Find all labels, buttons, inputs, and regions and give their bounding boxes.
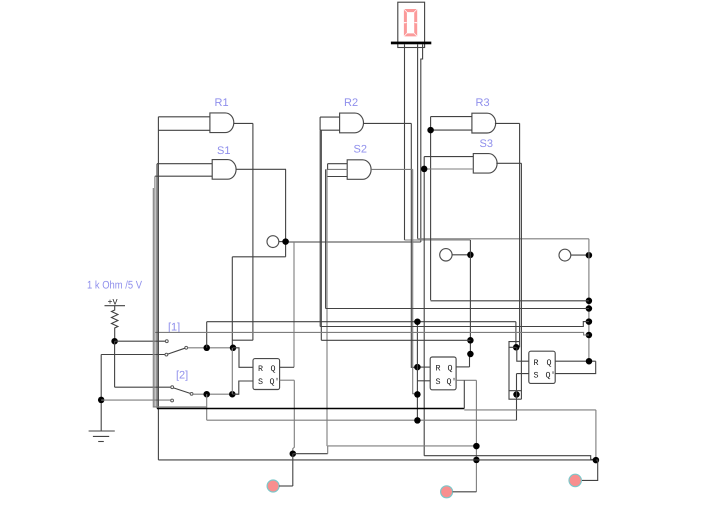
wire S3 input A bbox=[424, 156, 473, 158]
wire U3 R input drop bbox=[517, 347, 529, 361]
wire R2 inputs tie bbox=[319, 117, 321, 130]
SR latch U2 box bbox=[430, 357, 456, 390]
wire S2 bus long down bbox=[326, 169, 328, 446]
wire S2 output down bbox=[413, 169, 418, 394]
svg-text:R2: R2 bbox=[344, 97, 358, 109]
wire row410 gray bbox=[464, 409, 596, 411]
wire U top row bbox=[232, 256, 285, 258]
switch SW2 pole contact bbox=[190, 393, 193, 396]
svg-text:Q: Q bbox=[448, 364, 453, 374]
wire resistor net down bbox=[114, 341, 116, 387]
wire U2 R input bbox=[417, 366, 430, 368]
wire latch1 R jog bbox=[233, 348, 253, 368]
wire row circle1 net bbox=[286, 241, 421, 243]
switch SW1 pole contact bbox=[185, 346, 188, 349]
wire U2 Q' down bbox=[475, 380, 477, 492]
wire U3 Q out bbox=[555, 360, 596, 362]
node SW2 pole A bbox=[203, 391, 210, 398]
node U3 Q junction bbox=[586, 358, 593, 365]
wire ground to switch2 bottom throw bbox=[101, 399, 171, 401]
svg-text:R3: R3 bbox=[476, 97, 490, 109]
svg-text:Q: Q bbox=[547, 358, 552, 368]
SR latch U1 box bbox=[253, 359, 280, 390]
node U2 R bbox=[414, 364, 421, 371]
wire ground net riser bbox=[100, 355, 102, 432]
wire jog riser bbox=[327, 446, 329, 454]
wire row H5 with jog bbox=[155, 332, 589, 335]
node row460 jog bbox=[593, 457, 600, 464]
wire row H3 with jog bbox=[320, 322, 589, 327]
power +V symbol bbox=[105, 298, 126, 308]
wire U3 S loop bbox=[509, 391, 521, 400]
wire circle2 stub bbox=[452, 254, 471, 256]
wire U2 S input bbox=[417, 380, 430, 382]
svg-text:Q': Q' bbox=[546, 371, 556, 381]
wire row408 black bbox=[157, 408, 464, 410]
wire row to latch3 S bbox=[207, 419, 517, 421]
display digit 0 corner bevels bbox=[404, 9, 417, 36]
node circle1 junction bbox=[282, 238, 289, 245]
display digit 0 ring bbox=[404, 9, 417, 36]
node circle2 junction bbox=[467, 252, 474, 258]
svg-text:R: R bbox=[436, 364, 441, 374]
wire S3 input B bbox=[424, 168, 473, 170]
svg-text:[1]: [1] bbox=[168, 322, 180, 334]
wire S3 input tie down bbox=[423, 157, 425, 456]
AND gate S2 bbox=[347, 160, 371, 180]
wire U1 Q out bbox=[280, 366, 294, 368]
wire circle1 stub bbox=[279, 241, 286, 243]
wire S2 tie B bbox=[325, 169, 327, 308]
wire inter-loop vertical bbox=[508, 347, 510, 390]
node S3 inputs tie bbox=[421, 166, 428, 173]
wire red1 riser bbox=[292, 454, 294, 486]
AND gate R3 bbox=[472, 113, 496, 133]
wire resistor net to switch2 top throw bbox=[115, 386, 171, 388]
wire left bus line4 bbox=[153, 188, 207, 407]
ground symbol bbox=[89, 431, 115, 442]
wire S3 output down bbox=[520, 163, 522, 399]
wire display pin3 down with jog bbox=[421, 44, 423, 242]
svg-text:S: S bbox=[534, 371, 539, 381]
wire R2 output down bbox=[411, 123, 417, 367]
wire S1 output right bbox=[236, 168, 286, 170]
wire SW2 drop down bbox=[206, 394, 208, 420]
button red2 bbox=[441, 486, 453, 498]
wire row U1 to jog bbox=[293, 453, 328, 455]
wire R3 input A bbox=[431, 116, 472, 118]
wire display pin2 down bbox=[417, 44, 419, 239]
wire R2 input bus down bbox=[319, 130, 321, 326]
wire U1 Q' out bbox=[280, 379, 295, 381]
switch SW2 top throw contact bbox=[171, 386, 174, 389]
wire red1 stub bbox=[279, 485, 293, 487]
node circle3 row321 bbox=[586, 318, 593, 325]
wire row S2 net bbox=[326, 308, 589, 310]
indicator lamp circle2 bbox=[440, 249, 452, 261]
wire R1 input A bbox=[158, 116, 210, 118]
wire S1 input B bbox=[155, 175, 213, 177]
wire circle3 column bbox=[588, 239, 590, 361]
wire U3 S input bbox=[517, 374, 529, 421]
svg-text:S3: S3 bbox=[480, 138, 493, 150]
wire ground to switch1 bottom throw bbox=[101, 354, 165, 356]
switch SW1 top throw contact bbox=[165, 340, 168, 343]
wire R1 input B bbox=[158, 129, 210, 131]
wire left bus line2 bbox=[156, 164, 158, 409]
svg-text:S2: S2 bbox=[354, 144, 367, 156]
node U1 Q' bottom bbox=[290, 450, 297, 457]
node circle3 junction bbox=[586, 252, 593, 259]
switch SW1 blade bbox=[168, 348, 185, 354]
wire U2 Q out bbox=[456, 366, 469, 368]
wire R2 second bus down bbox=[320, 130, 322, 340]
wire S3 output right bbox=[496, 162, 521, 164]
svg-text:S: S bbox=[258, 377, 263, 387]
wire row pin1 to circle2 column bbox=[405, 239, 471, 241]
wire row R3 net bbox=[431, 300, 589, 302]
wire S1 input A bbox=[157, 163, 212, 165]
node U3 R junction bbox=[513, 344, 520, 351]
wire S2 output right bbox=[371, 168, 412, 170]
node SW2 pole B bbox=[229, 391, 236, 398]
svg-text:S1: S1 bbox=[217, 145, 230, 157]
svg-text:S: S bbox=[436, 377, 441, 387]
wire R2 input B bbox=[320, 129, 340, 131]
node SW1 pole A bbox=[203, 345, 210, 352]
node circle2 row340 bbox=[467, 337, 474, 344]
wire U2 Q up bbox=[469, 354, 471, 367]
AND gate R2 bbox=[340, 113, 364, 133]
wire circle2 column bbox=[469, 240, 471, 354]
wire S2 tie A bbox=[327, 164, 329, 170]
wire U3 Q' out bbox=[555, 361, 596, 373]
wire R3 output down bbox=[519, 123, 521, 347]
wire R1 output down bbox=[252, 123, 254, 340]
wire S1 output down bbox=[285, 169, 287, 241]
node U2 Q' row446 bbox=[473, 443, 480, 450]
button red1 bbox=[267, 480, 279, 492]
resistor R 1k bbox=[112, 306, 118, 342]
display digit 0 notch left bbox=[404, 22, 408, 23]
wire circle3 stub bbox=[571, 254, 589, 256]
switch SW2 bottom throw contact bbox=[171, 399, 174, 402]
svg-text:[2]: [2] bbox=[176, 370, 188, 382]
wire display pin1 down bbox=[404, 44, 406, 240]
wire S1 output link down bbox=[285, 242, 287, 257]
wire row460 black bbox=[158, 459, 596, 461]
wire switch1 net drop to latch3 R bbox=[515, 322, 517, 348]
switch SW1 bottom throw contact bbox=[165, 353, 168, 356]
wire R2 input A bbox=[320, 116, 340, 118]
wire R3 input B bbox=[431, 129, 472, 131]
wire riser 464 bbox=[463, 380, 465, 408]
svg-text:Q: Q bbox=[271, 364, 276, 374]
node ground tee bbox=[98, 397, 105, 404]
switch SW2 blade bbox=[174, 388, 191, 394]
svg-text:R: R bbox=[258, 364, 263, 374]
wire latch1 Q up column bbox=[293, 242, 295, 367]
wire S2 input B bbox=[327, 176, 348, 178]
indicator lamp circle1 bbox=[267, 236, 279, 248]
SR latch U3 box bbox=[529, 351, 555, 383]
node switch1 row junction bbox=[414, 318, 421, 325]
wire SW1 pole row bbox=[188, 347, 233, 349]
wire red3 drop bbox=[582, 460, 598, 480]
wire red2 stub bbox=[453, 491, 477, 493]
indicator lamp circle3 bbox=[559, 249, 571, 261]
node circle3 row335 bbox=[586, 332, 593, 339]
wire latch1 S jog bbox=[232, 381, 253, 394]
node U3 S junction bbox=[513, 391, 520, 398]
wire U2 Q' out bbox=[456, 379, 476, 381]
node SW1 pole B bbox=[230, 345, 237, 352]
wire U left leg bbox=[231, 257, 233, 348]
wire R3 output right bbox=[495, 122, 520, 124]
wire SW2 inter-dot riser bbox=[231, 348, 233, 394]
display digit 0 notch right bbox=[414, 22, 418, 23]
wire row455 bbox=[424, 456, 596, 460]
node R3 inputs tie bbox=[427, 127, 434, 134]
svg-text:R1: R1 bbox=[215, 97, 229, 109]
node circle2 row354 bbox=[467, 351, 474, 358]
wire R2 output right bbox=[363, 122, 411, 124]
wire R3 input bus down bbox=[430, 117, 432, 301]
node circle3 row300 bbox=[586, 298, 593, 305]
svg-text:1 k Ohm /5 V: 1 k Ohm /5 V bbox=[87, 280, 143, 292]
wire switch1 column down bbox=[416, 322, 418, 421]
wire row pin2 to circle3 column bbox=[418, 238, 589, 240]
wire row to latch2 Qp node bbox=[328, 445, 477, 447]
wire resistor to switch1 top throw bbox=[115, 340, 166, 342]
wire U1 Q' down bbox=[293, 380, 295, 454]
svg-text:R: R bbox=[534, 358, 539, 368]
wire U3 R loop bbox=[509, 342, 520, 348]
wire SW2 pole row bbox=[193, 393, 239, 395]
wire left bus line1 bbox=[157, 117, 159, 460]
node U2 Q' row460 bbox=[473, 457, 480, 464]
wire drop 595 bbox=[595, 410, 597, 460]
wire row switch1 net long bbox=[207, 321, 516, 323]
svg-text:Q': Q' bbox=[270, 377, 280, 387]
display mounting bar bbox=[391, 42, 431, 45]
wire U bottom bbox=[232, 339, 253, 341]
AND gate S1 bbox=[212, 160, 236, 180]
wire S2 input mid bbox=[327, 168, 348, 170]
display U7 body bbox=[398, 2, 425, 47]
node column row420 bbox=[414, 417, 421, 424]
node column row394 bbox=[414, 391, 421, 398]
wire left bus line3 bbox=[154, 176, 156, 407]
wire R1 output right bbox=[234, 122, 253, 124]
wire SW1 riser up bbox=[206, 322, 208, 348]
node circle3 row308 bbox=[586, 305, 593, 312]
node resistor bottom bbox=[111, 338, 118, 345]
AND gate R1 bbox=[210, 113, 234, 133]
button red3 bbox=[569, 474, 581, 486]
AND gate S3 bbox=[473, 154, 497, 174]
svg-text:Q': Q' bbox=[447, 377, 457, 387]
wire S2 input A bbox=[328, 163, 348, 165]
wire row340 link bbox=[321, 339, 470, 341]
